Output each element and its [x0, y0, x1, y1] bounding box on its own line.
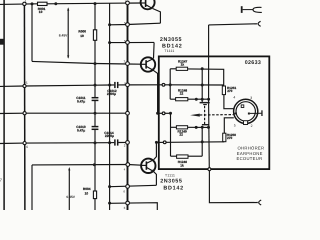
wire row113 into box [158, 112, 171, 114]
wire R1251 bottom to DIN [224, 95, 234, 109]
junction dot x202 R1247 [201, 67, 204, 70]
resistor R1248 [176, 98, 188, 101]
svg-text:2N3055: 2N3055 [160, 37, 182, 43]
wire top row after R001 [47, 2, 141, 5]
resistor R000 [93, 30, 96, 41]
junction dot [108, 23, 111, 26]
svg-text:T1111: T1111 [165, 174, 175, 178]
junction dot [31, 2, 34, 5]
svg-text:1k: 1k [180, 163, 184, 167]
node circle rail x=24 row143 [23, 141, 26, 144]
wire vertical x=208.6 chassis [208, 25, 210, 103]
junction dot row113 x170 [169, 112, 172, 115]
wire R1247 left [170, 68, 176, 70]
wire vertical rail x=24 [23, 4, 26, 210]
svg-text:4: 4 [233, 96, 235, 100]
wire vertical x=202.2 [201, 69, 203, 102]
wire chassis bottom [209, 171, 257, 203]
svg-text:02633: 02633 [245, 60, 261, 66]
pin square right [248, 113, 250, 115]
pin square left [235, 113, 237, 115]
svg-text:22: 22 [179, 133, 183, 137]
wire Q2 emitter down to row113 [153, 70, 158, 113]
terminal bar right [261, 110, 262, 116]
junction dot x196 row127 [195, 126, 198, 129]
node circle rail x=24 row85 [23, 84, 26, 87]
wire row164 [32, 163, 141, 166]
svg-text:10: 10 [39, 10, 43, 14]
junction dot x202 row127 [201, 126, 204, 129]
wire R1246 left [170, 155, 176, 157]
svg-text:10: 10 [85, 192, 89, 196]
wire row25 [110, 23, 161, 25]
junction dot x202 row85 [201, 84, 204, 87]
svg-text:270: 270 [227, 89, 232, 93]
svg-text:10: 10 [80, 34, 84, 38]
junction dot [93, 141, 96, 144]
capacitor C1011 [92, 97, 99, 99]
svg-text:0.47μ: 0.47μ [77, 129, 85, 133]
resistor R1246 [177, 155, 188, 158]
pin circle 7 [126, 1, 130, 5]
connector jaw top right [258, 21, 261, 26]
pin circle row113 [126, 111, 130, 115]
wire R1246 right [188, 155, 202, 157]
wire vertical x=95 top [94, 4, 96, 30]
junction dot Q3 collector at row143 [155, 141, 158, 144]
wire row63 [32, 61, 141, 64]
transistor Q3 [141, 159, 155, 173]
resistor R1251 [222, 86, 225, 95]
capacitor C1010 [92, 126, 99, 128]
wire vertical x=170.2 top channel [169, 69, 171, 99]
node circle rail x=24 row113 [23, 112, 26, 115]
wire row186 [110, 185, 157, 186]
svg-text:OHRHÖRER: OHRHÖRER [237, 145, 264, 150]
wire loop left bottom [31, 165, 33, 210]
svg-text:ECOUTEUR: ECOUTEUR [236, 156, 262, 161]
wire right pin to terminal [250, 112, 262, 114]
svg-text:0.47μ: 0.47μ [77, 99, 85, 103]
ground bar bottom (switch) [202, 124, 209, 125]
resistor R1247 [176, 67, 187, 70]
label OHRHOERER EARPHONE ECOUTEUR [236, 145, 264, 161]
wire R1248 left [170, 98, 175, 100]
junction dot [108, 202, 111, 205]
wire left pin [234, 112, 235, 114]
wire row85 into box [164, 84, 224, 86]
junction dot [108, 141, 111, 144]
svg-text:2200μ: 2200μ [107, 92, 116, 96]
wire row203 [110, 203, 158, 210]
junction dot [94, 84, 97, 87]
wire Q2 collector to row42 [153, 43, 156, 59]
wire row143 into box [156, 141, 224, 144]
mechanical link dashed arrow [190, 114, 233, 117]
junction dot x202 row143 [201, 140, 204, 143]
wire vertical x=95 between caps [94, 100, 96, 126]
resistor R004 [93, 191, 96, 199]
ground bar top [200, 102, 210, 104]
junction dot x208 row99 [207, 98, 210, 101]
module box 02633 [159, 56, 270, 169]
svg-text:1k: 1k [181, 63, 185, 67]
svg-text:T1111: T1111 [164, 49, 174, 53]
wire Q1 emitter to row25 [153, 9, 161, 24]
pin circle 9 [126, 83, 130, 87]
pin circle 10 [126, 141, 130, 145]
junction dot x170 row85 [169, 83, 172, 86]
svg-text:2N3055: 2N3055 [160, 179, 182, 185]
pin circle 6 [126, 185, 130, 189]
pin circle 5b [126, 41, 130, 45]
junction dot Q2 emitter at row113 [156, 112, 159, 115]
wire vertical rail far left [3, 0, 5, 210]
junction dot x202 row99 [201, 98, 204, 101]
wire vertical x=95 bottom [94, 199, 96, 210]
label fragment at left edge [0, 39, 4, 45]
wire top row y=4 [0, 3, 38, 6]
wire vertical x=95 lower [94, 129, 96, 191]
junction dot x208 row127 [207, 126, 210, 129]
wire row42 [110, 41, 155, 43]
resistor R1250 [223, 133, 226, 142]
pin circle 4 [126, 163, 130, 167]
node circle row143 box edge [163, 141, 166, 144]
node circle chassis on box bottom edge [208, 168, 211, 171]
transistor Q2 [141, 57, 155, 71]
wire bus vertical [126, 3, 128, 210]
transistor Q1 (top, clipped) [141, 0, 155, 9]
svg-text:6: 6 [26, 145, 28, 149]
svg-text:2: 2 [251, 124, 253, 128]
svg-text:0.45V: 0.45V [66, 195, 75, 199]
wire R1248 right [188, 98, 209, 100]
wire row113 [0, 112, 127, 114]
svg-text:3: 3 [250, 96, 252, 100]
node circle row85 box edge [162, 83, 165, 86]
junction dot [94, 2, 97, 5]
wire vertical x=170.5 bottom channel [169, 113, 171, 156]
wire R1249 right [188, 126, 209, 128]
node terminal circle rail x=24 top [23, 2, 26, 5]
resistor R1249 [176, 126, 187, 129]
wire vertical x=202.2 bottom [201, 127, 203, 156]
node circle row113 box edge [162, 112, 165, 115]
junction dot [94, 62, 97, 65]
DIN earphone socket [234, 99, 263, 125]
capacitor C1012 [114, 82, 116, 88]
wire R1249 left [170, 126, 176, 128]
wire row85 [0, 85, 110, 86]
capacitor C1014 [114, 139, 116, 145]
wire loop left x=32 [31, 4, 33, 62]
junction dot [93, 163, 96, 166]
svg-text:BD142: BD142 [163, 185, 184, 191]
pin square top open [241, 105, 244, 108]
pin circle 3b [126, 201, 130, 205]
junction dot [93, 112, 96, 115]
junction dot [108, 185, 111, 188]
svg-text:5: 5 [234, 123, 236, 127]
junction dot x196 row99 [195, 98, 198, 101]
svg-text:270: 270 [227, 136, 232, 140]
pin circle 5a [126, 23, 130, 27]
junction dot [54, 2, 57, 5]
connector jaw bottom right [259, 200, 262, 205]
svg-text:R004: R004 [83, 187, 91, 191]
chassis wire top right [209, 24, 258, 25]
measurement arrow 8.45V [67, 9, 69, 58]
svg-text:22: 22 [180, 92, 184, 96]
pin circle 3a [126, 62, 130, 66]
mechanical link dashed vertical [204, 106, 206, 124]
resistor R001 [38, 2, 48, 5]
junction dot [108, 83, 111, 86]
socket key notch [243, 120, 248, 125]
junction dot [108, 41, 111, 44]
plug symbol top right [241, 6, 262, 13]
measurement arrow 0.45V [68, 169, 70, 210]
wire Q3 emitter to row186 [153, 171, 156, 185]
wire vertical x=95 R000 to row63 [94, 40, 96, 97]
wire vertical x=109.6 [109, 3, 111, 210]
wire R1247 right [188, 69, 224, 86]
wire row143 [0, 142, 114, 145]
wire Q3 collector to row143 [154, 142, 157, 159]
wire R1250 top to DIN [224, 118, 234, 133]
svg-text:8.45V: 8.45V [59, 34, 68, 38]
